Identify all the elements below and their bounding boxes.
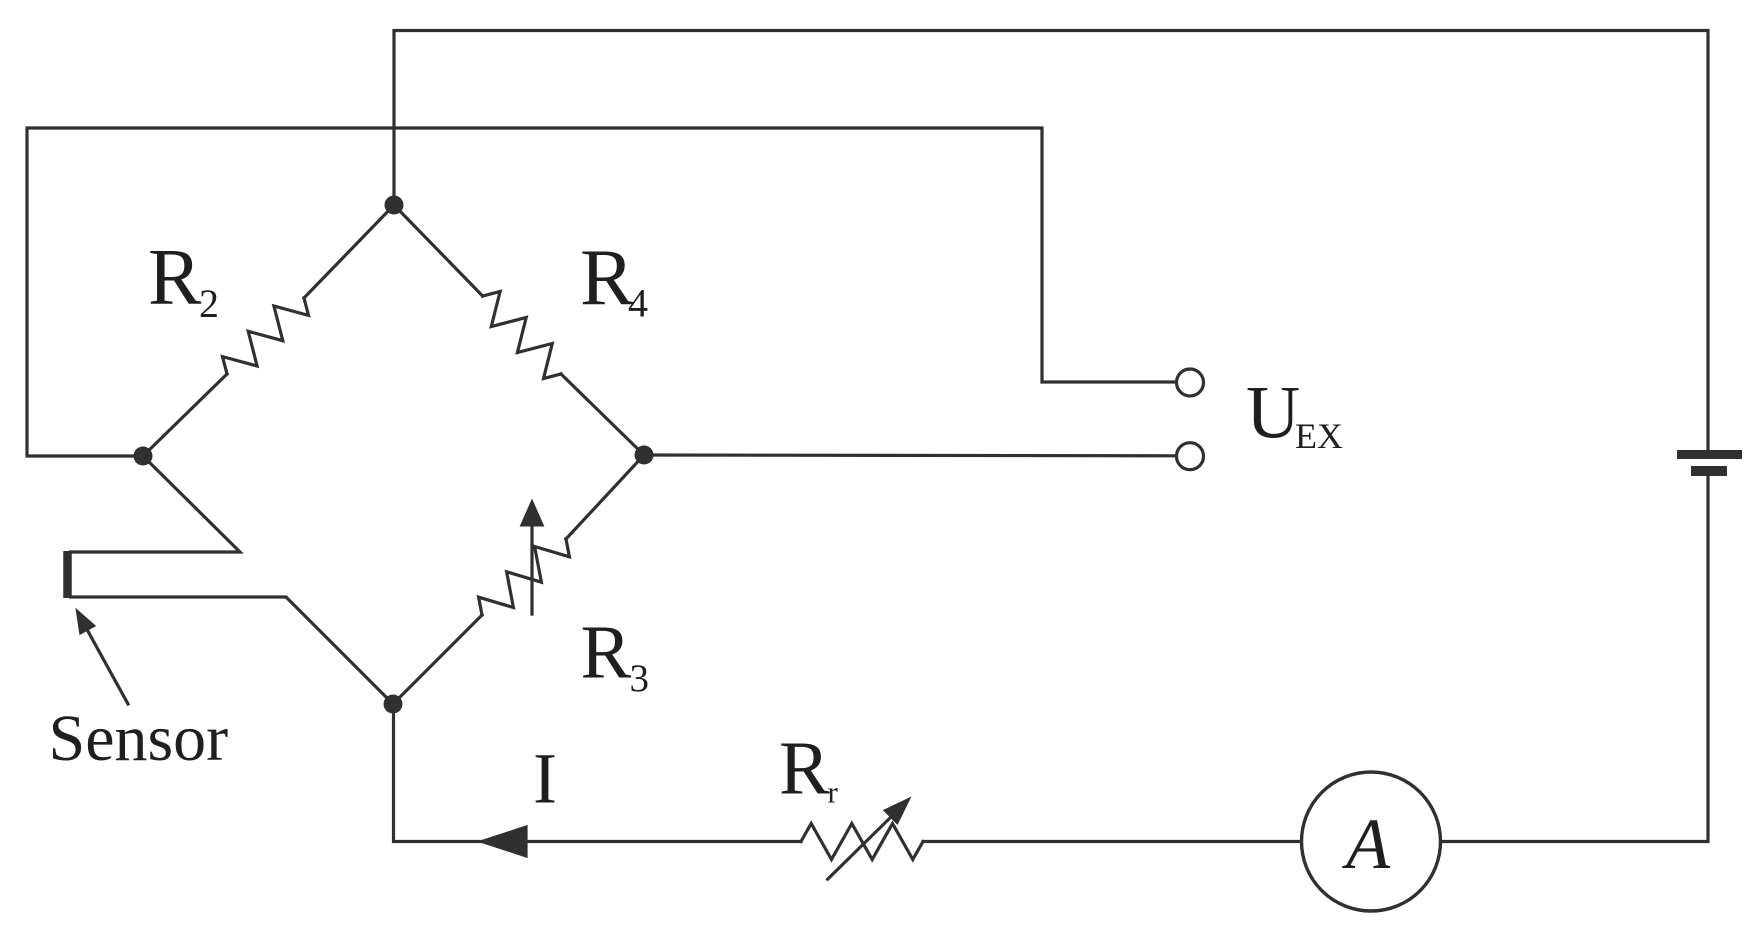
svg-text:R: R (148, 234, 202, 322)
svg-text:R: R (779, 727, 830, 811)
svg-text:A: A (1342, 804, 1391, 884)
svg-text:EX: EX (1295, 416, 1343, 456)
svg-text:I: I (533, 739, 557, 819)
svg-text:Sensor: Sensor (49, 702, 229, 775)
svg-text:R: R (581, 610, 632, 694)
svg-text:2: 2 (199, 281, 219, 326)
svg-text:r: r (828, 774, 839, 809)
svg-text:U: U (1246, 371, 1300, 454)
svg-text:4: 4 (628, 281, 648, 326)
svg-text:3: 3 (630, 657, 650, 700)
svg-text:R: R (580, 232, 634, 322)
